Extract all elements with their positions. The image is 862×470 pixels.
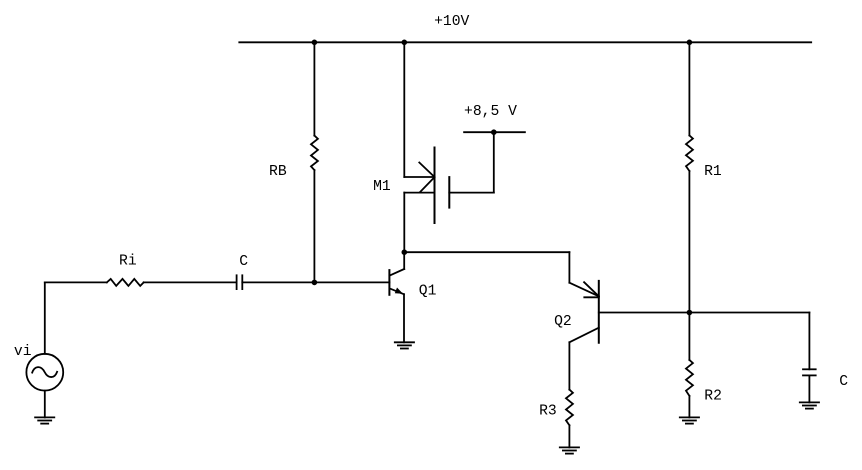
- collector vertical: [403, 252, 405, 269]
- arrow barb lower: [420, 177, 435, 192]
- resistor Ri: [107, 279, 144, 286]
- channel bar: [434, 148, 436, 224]
- capacitor C series: [237, 275, 243, 289]
- source circle: [26, 354, 63, 391]
- ground vi: [35, 417, 54, 423]
- ground Q1: [395, 342, 414, 348]
- emitter vertical: [403, 294, 405, 342]
- wire vi bottom: [44, 391, 46, 418]
- collector diagonal: [390, 269, 405, 276]
- resistor RB: [311, 136, 318, 171]
- capacitor C output: [803, 369, 816, 375]
- wire vi to Ri: [45, 281, 107, 283]
- base bar: [388, 270, 390, 295]
- arrow barb upper: [419, 163, 434, 178]
- collector diagonal: [569, 328, 598, 343]
- gate bar: [448, 177, 450, 208]
- sine wave: [32, 367, 57, 377]
- svg-text:Ri: Ri: [119, 254, 137, 270]
- resistor R2: [686, 360, 693, 396]
- wire R1 upper: [688, 42, 690, 135]
- wire RB branch upper: [313, 42, 315, 135]
- emitter arrow: [395, 288, 403, 294]
- base bar: [598, 281, 600, 343]
- gate lead: [449, 192, 494, 194]
- wire Ri to C: [144, 281, 237, 283]
- ground R3: [560, 447, 579, 453]
- wire +10V power rail: [239, 41, 811, 43]
- wire M1 drain vertical: [403, 42, 405, 177]
- svg-text:M1: M1: [373, 179, 391, 195]
- emitter diagonal shaft: [569, 283, 598, 297]
- svg-text:R2: R2: [704, 388, 722, 404]
- wire gate to +8,5V: [493, 132, 495, 192]
- node junction rail/RB: [312, 40, 318, 46]
- node junction base/R1/R2: [687, 310, 693, 316]
- emitter diagonal: [390, 288, 404, 294]
- svg-text:RB: RB: [269, 164, 287, 180]
- wire R2 upper: [688, 313, 690, 360]
- wire node to Q2 emitter: [404, 251, 569, 253]
- node junction rail/R1: [687, 40, 693, 46]
- transistor Q2: [569, 252, 598, 343]
- wire R2 lower: [688, 396, 690, 418]
- svg-text:C: C: [839, 374, 848, 390]
- svg-text:R1: R1: [704, 164, 722, 180]
- resistor R1: [686, 135, 693, 171]
- svg-text:Q1: Q1: [419, 284, 437, 300]
- node junction M1 source / Q1 collector / Q2: [402, 249, 408, 255]
- voltage source vi: [26, 282, 63, 417]
- wire C to Q1 base: [242, 281, 389, 283]
- ground C: [800, 402, 819, 408]
- svg-text:C: C: [239, 254, 248, 270]
- wire Q2 collector to R3: [568, 342, 570, 389]
- resistor R3: [566, 390, 573, 426]
- wire Q2 base to R1/R2 node and C: [599, 312, 810, 314]
- wire C to ground: [808, 375, 810, 402]
- transistor Q1: [389, 252, 404, 342]
- svg-text:vi: vi: [14, 344, 32, 360]
- wire +8,5V bus: [464, 131, 525, 133]
- svg-text:+8,5 V: +8,5 V: [464, 104, 517, 120]
- svg-text:Q2: Q2: [554, 314, 572, 330]
- transistor M1: [404, 148, 494, 224]
- node junction gate/+8,5V: [491, 129, 497, 135]
- source lead: [404, 192, 434, 194]
- wire RB branch lower: [313, 170, 315, 282]
- wire M1 source to node: [403, 193, 405, 253]
- node junction rail/M1: [402, 40, 408, 46]
- ground R2: [680, 417, 699, 423]
- emitter vertical from node wire: [568, 252, 570, 283]
- wire output node down to C: [808, 313, 810, 370]
- svg-text:R3: R3: [539, 404, 557, 420]
- wire R3 lower: [568, 425, 570, 447]
- wire vi top: [44, 282, 46, 353]
- arrow barb upper: [584, 282, 599, 296]
- drain lead: [404, 176, 434, 178]
- svg-text:+10V: +10V: [434, 14, 469, 30]
- arrow barb lower: [584, 296, 599, 298]
- wire R1 lower: [688, 171, 690, 313]
- node junction RB/base wire: [312, 280, 318, 286]
